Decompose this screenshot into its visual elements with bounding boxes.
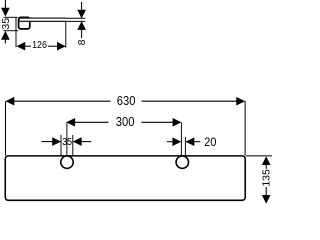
dim 20: left tail line — [167, 141, 173, 143]
dim 135: lower dimension line segment — [265, 187, 267, 195]
dim 35 side: lower dimension line segment — [4, 40, 6, 44]
dim 35 hole: left arrow (points right) — [52, 137, 61, 146]
dim 300: left line segment — [75, 121, 109, 123]
dim 630: left extension line — [5, 101, 7, 155]
svg-text:135: 135 — [260, 169, 272, 187]
dim 630: label text "630" — [117, 94, 136, 108]
svg-text:20: 20 — [204, 137, 216, 149]
dim 20: right arrow (points left) — [186, 137, 195, 146]
dim 8: lower dimension line segment — [81, 30, 83, 38]
svg-text:630: 630 — [117, 94, 136, 108]
dim 35 hole: right extension line — [72, 135, 74, 159]
dim 300: right line segment — [142, 121, 174, 123]
dim 126: left line segment — [25, 45, 32, 47]
dim 35 hole: left extension line — [60, 135, 62, 159]
dim 630: right arrow — [236, 97, 245, 106]
dim 135: lower arrow (down) — [262, 195, 271, 204]
dim 20: right extension line — [184, 137, 186, 157]
svg-text:300: 300 — [116, 115, 135, 129]
dim 630: right extension line — [244, 101, 246, 156]
shelf plate (plan view) — [5, 156, 245, 200]
dim 20: left arrow (points right) — [172, 137, 181, 146]
dim 35 side: label text "35" rotated — [0, 18, 12, 30]
dim 630: left arrow — [6, 97, 15, 106]
dim 8: label text "8" rotated — [76, 39, 88, 45]
dim 8: lower arrow (up) — [77, 21, 86, 30]
svg-text:35: 35 — [0, 18, 12, 30]
svg-text:126: 126 — [32, 40, 47, 51]
left mounting hole — [61, 156, 73, 168]
dim 35 side: top extension line — [4, 16, 18, 18]
dim 35 hole: right tail line — [81, 141, 92, 143]
dim 126: right extension line — [65, 22, 67, 48]
dim 35 side: bottom extension line — [4, 30, 19, 32]
svg-text:35: 35 — [62, 137, 72, 148]
dim 8: upper dimension line segment — [81, 2, 83, 10]
dim 126: right arrow — [57, 42, 66, 51]
dim 300: left arrow — [66, 118, 75, 127]
dim 630: right line segment — [142, 100, 238, 102]
dim 135: upper dimension line segment — [265, 165, 267, 169]
left hole center extension line — [66, 122, 68, 156]
dim 126: label text "126" — [32, 40, 47, 51]
dim 35 hole: label text "35" — [62, 137, 72, 148]
dim 35 side: lower arrow (up) — [1, 31, 10, 40]
dim 135: top extension line — [246, 155, 272, 157]
dim 8: top extension line — [66, 17, 85, 19]
dim 35 side: upper dimension line segment — [4, 0, 6, 8]
dim 300: right arrow — [173, 118, 182, 127]
dim 630: left line segment — [14, 100, 111, 102]
wall extension line — [15, 17, 17, 47]
dim 300: label text "300" — [116, 115, 135, 129]
dim 35 hole: right arrow (points left) — [73, 137, 82, 146]
dim 8: bottom extension line — [66, 20, 85, 22]
dim 126: right line segment — [48, 45, 58, 47]
svg-text:8: 8 — [76, 39, 88, 45]
glass shelf (side view bar) — [19, 18, 66, 21]
dim 20: right tail line — [194, 141, 201, 143]
dim 135: upper arrow (up) — [262, 156, 271, 165]
right mounting hole — [176, 156, 188, 168]
dim 135: label text "135" rotated — [260, 169, 272, 187]
dim 8: upper arrow (down) — [77, 10, 86, 19]
bracket (wall mount, side view) — [19, 17, 30, 29]
dim 20: label text "20" — [204, 137, 216, 149]
dim 126: left arrow — [16, 42, 25, 51]
right hole center extension line — [180, 122, 182, 156]
dim 35 side: upper arrow (down) — [1, 8, 10, 17]
dim 35 hole: left tail line — [42, 141, 54, 143]
